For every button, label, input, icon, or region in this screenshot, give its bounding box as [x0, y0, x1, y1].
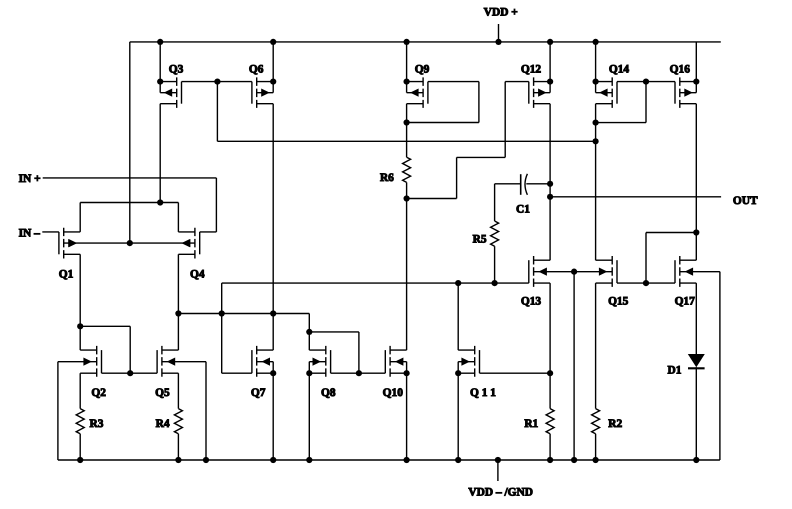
svg-text:R5: R5 — [473, 233, 487, 245]
svg-text:Q10: Q10 — [383, 387, 404, 399]
svg-text:Q 1 1: Q 1 1 — [470, 387, 496, 399]
svg-text:R4: R4 — [156, 418, 170, 430]
svg-text:D1: D1 — [668, 365, 682, 377]
svg-text:Q15: Q15 — [608, 296, 629, 308]
svg-text:Q3: Q3 — [169, 63, 184, 75]
svg-text:Q14: Q14 — [609, 63, 630, 75]
svg-text:Q12: Q12 — [521, 63, 542, 75]
svg-text:R2: R2 — [608, 418, 622, 430]
svg-text:R6: R6 — [380, 172, 394, 184]
svg-text:Q16: Q16 — [670, 63, 691, 75]
svg-text:VDD – /GND: VDD – /GND — [468, 486, 533, 498]
svg-text:Q9: Q9 — [415, 63, 430, 75]
svg-text:OUT: OUT — [733, 195, 758, 207]
svg-text:Q6: Q6 — [249, 63, 264, 75]
svg-text:C1: C1 — [516, 204, 530, 216]
svg-text:Q17: Q17 — [675, 296, 696, 308]
svg-text:IN +: IN + — [19, 173, 41, 185]
svg-text:Q8: Q8 — [321, 387, 336, 399]
svg-text:Q7: Q7 — [251, 387, 266, 399]
svg-text:Q4: Q4 — [190, 269, 205, 281]
svg-text:R1: R1 — [524, 418, 538, 430]
svg-text:Q5: Q5 — [155, 387, 170, 399]
svg-text:R3: R3 — [90, 418, 104, 430]
svg-text:Q1: Q1 — [59, 269, 74, 281]
svg-text:Q13: Q13 — [521, 296, 542, 308]
svg-text:IN –: IN – — [19, 228, 41, 240]
svg-text:VDD +: VDD + — [484, 7, 518, 19]
svg-text:Q2: Q2 — [91, 387, 106, 399]
